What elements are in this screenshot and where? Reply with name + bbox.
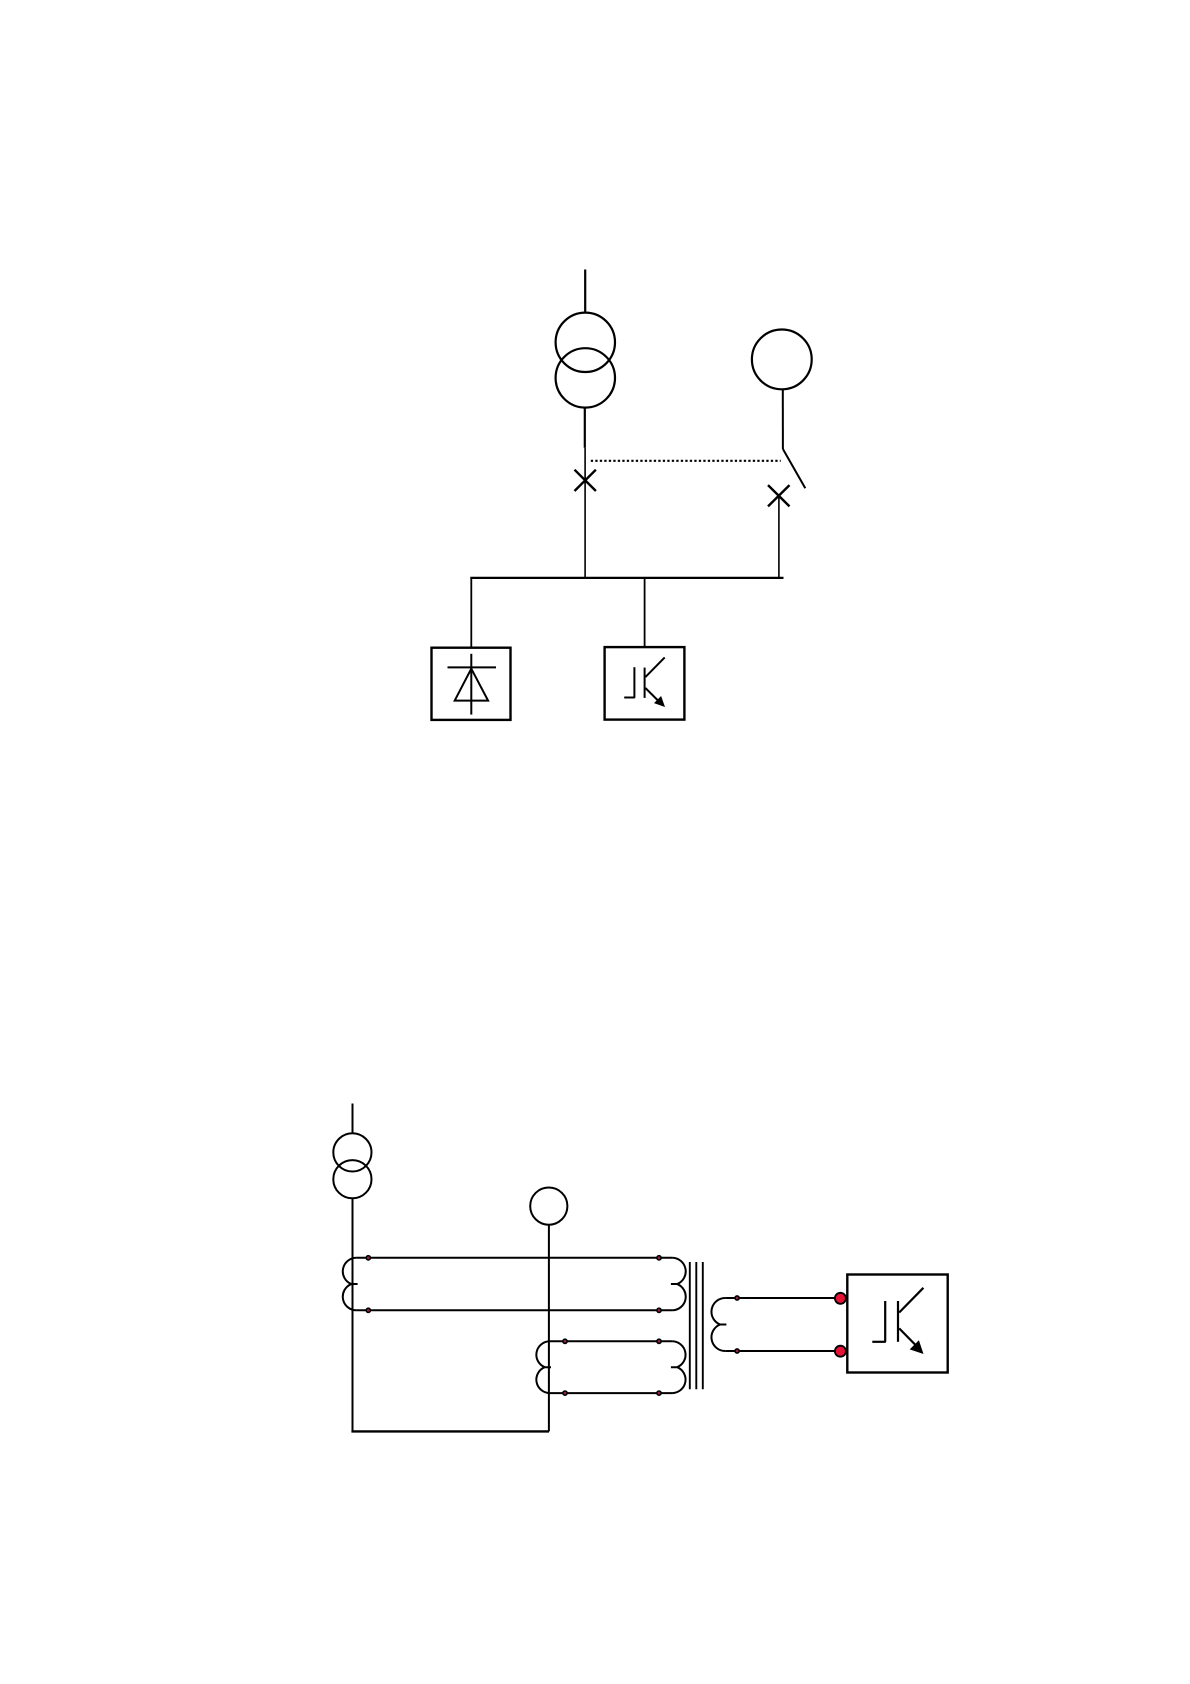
bus bar — [470, 577, 783, 579]
node dot L3 bottom-left — [735, 1349, 739, 1353]
terminal dot top (red) — [835, 1293, 846, 1304]
transformer T2 (two-winding) — [333, 1133, 371, 1198]
primary winding L2 bottom conductor — [550, 1392, 672, 1394]
node dot L1 bottom-right — [657, 1308, 661, 1312]
generator G1 (right circle) — [752, 330, 812, 390]
wire: bus to rectifier — [470, 578, 472, 648]
wire: left vertical (transformer to bottom link) — [352, 1198, 354, 1431]
breaker X2 (right) — [768, 485, 790, 506]
wire: middle vertical (circle to bottom link) — [548, 1225, 550, 1432]
secondary winding L3 bottom conductor — [725, 1350, 840, 1352]
transformer core lines — [690, 1262, 703, 1389]
converter box U3 — [847, 1275, 947, 1373]
wire: right branch to bus — [778, 496, 780, 579]
secondary winding L3 top conductor — [725, 1297, 840, 1299]
thyristor/diode symbol in U1 — [448, 654, 497, 715]
primary winding L1 right loops — [671, 1258, 686, 1311]
transformer T1 (two-winding) — [556, 313, 615, 408]
wire: feeder top (lower diagram) — [352, 1104, 354, 1134]
wire: transformer secondary drop — [584, 408, 586, 448]
primary winding L1 left loops — [343, 1258, 358, 1311]
machine M (circle, lower diagram) — [530, 1188, 567, 1225]
node dot L2 bottom-right — [657, 1391, 661, 1395]
primary winding L2 top conductor — [550, 1340, 672, 1342]
node dot L1 bottom-left — [366, 1308, 370, 1312]
terminal dot bottom (red) — [835, 1346, 846, 1357]
converter box U2 — [605, 647, 685, 720]
node dot L1 top-right — [657, 1256, 661, 1260]
node dot L2 top-right — [657, 1339, 661, 1343]
wire: generator drop — [782, 389, 784, 449]
rectifier box U1 — [432, 648, 511, 720]
interlock dotted line — [591, 460, 781, 462]
node dot L1 top-left — [366, 1256, 370, 1260]
primary winding L2 right loops — [671, 1341, 686, 1393]
IGBT symbol in U3 — [872, 1288, 923, 1347]
IGBT U2 emitter arrowhead — [654, 696, 665, 707]
secondary winding L3 left loops — [711, 1298, 726, 1351]
IGBT symbol in U2 — [624, 657, 665, 702]
bottom link wire — [351, 1430, 549, 1432]
primary winding L2 left loops — [536, 1341, 551, 1393]
node dot L2 bottom-left — [563, 1391, 567, 1395]
node dot L3 top-left — [735, 1296, 739, 1300]
wire: left branch to bus — [584, 448, 586, 579]
IGBT U3 emitter arrowhead — [910, 1340, 924, 1354]
breaker X1 (left) — [575, 470, 596, 491]
node dot L2 top-left — [563, 1339, 567, 1343]
primary winding L1 bottom conductor — [356, 1309, 672, 1311]
wire: incoming feeder top — [584, 270, 586, 313]
disconnect switch blade — [783, 449, 805, 488]
wire: bus to converter — [644, 578, 646, 648]
primary winding L1 top conductor — [356, 1257, 672, 1259]
